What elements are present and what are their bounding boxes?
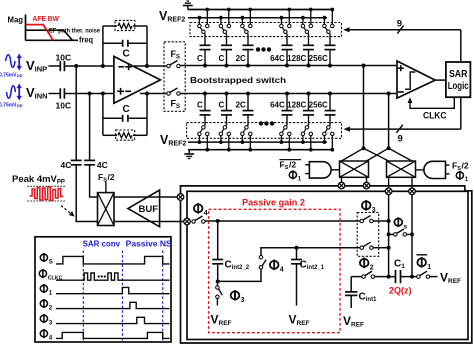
- wire to phi4 series switch: [218, 269, 261, 281]
- capacitor C1: [394, 259, 405, 284]
- capacitor C (bottom DAC): [219, 92, 232, 126]
- svg-text:0.75mV: 0.75mV: [0, 73, 17, 79]
- top DAC VREF2 rail: [188, 17, 327, 19]
- ground (top of top DAC): [183, 1, 193, 10]
- outer loop box: [181, 186, 472, 343]
- capacitor C (top DAC): [197, 34, 210, 68]
- svg-text:4C: 4C: [61, 160, 72, 170]
- svg-text:SAR conv: SAR conv: [83, 238, 121, 248]
- svg-text:0.75mV: 0.75mV: [0, 103, 17, 109]
- svg-text:/2: /2: [108, 172, 115, 182]
- feedback capacitor C (bottom): [103, 94, 147, 136]
- svg-text:3: 3: [49, 319, 53, 326]
- svg-text:128C: 128C: [287, 101, 306, 110]
- crossing wires into chopper boxes: [342, 148, 413, 161]
- svg-text:10C: 10C: [56, 101, 72, 111]
- dashed box phi3: [357, 213, 379, 257]
- svg-text:10C: 10C: [56, 53, 72, 63]
- wire 4C left to chopper: [76, 165, 97, 222]
- signal phi_3: [40, 314, 169, 326]
- svg-text:C: C: [123, 49, 130, 60]
- label Fs/2 (chopper drive): [98, 172, 115, 184]
- bottom DAC switch column 2C (bit 2): [241, 126, 253, 152]
- svg-text:SAR: SAR: [449, 69, 468, 80]
- signal phi_2: [40, 299, 169, 311]
- signal phi_1: [40, 284, 169, 296]
- svg-text:/2: /2: [462, 161, 469, 171]
- wire phi4 up to Cint2_1 rail: [261, 248, 362, 256]
- stub left box to modulators: [342, 177, 413, 188]
- wire vertical from left top modulator: [388, 195, 390, 277]
- switch phi4 (series, middle): [259, 255, 284, 273]
- wire bottom DAC plate bus (amp out to comparator -): [181, 93, 397, 95]
- svg-text:PP: PP: [17, 74, 23, 79]
- signal phi_CLKC: [39, 269, 169, 281]
- bottom DAC ground rail: [188, 149, 334, 151]
- svg-text:AFE BW: AFE BW: [33, 14, 60, 23]
- capacitor 64C (bottom DAC): [270, 92, 292, 126]
- capacitor C (bottom DAC): [197, 92, 210, 126]
- switch phi4 (input of passive gain): [192, 203, 208, 223]
- svg-text:freq: freq: [79, 36, 93, 45]
- switch phi_s: [387, 217, 414, 236]
- dashed arrow to chopper: [61, 206, 75, 217]
- feedback resistor (top, dashed box): [103, 20, 147, 30]
- svg-text:2C: 2C: [236, 101, 246, 110]
- dots (bottom DAC ellipsis): [259, 121, 274, 125]
- capacitor 4C (left): [61, 160, 82, 170]
- label phi1 (right AND): [459, 171, 461, 180]
- label Fs/2 (right): [452, 161, 469, 173]
- wire VINP to 10C: [48, 65, 60, 67]
- wire chopper to inner modulator (bottom): [114, 221, 184, 223]
- svg-text:1: 1: [49, 289, 53, 296]
- input sine icon VINN: [7, 84, 22, 101]
- svg-text:9: 9: [397, 19, 402, 30]
- svg-text:Bootstrapped switch: Bootstrapped switch: [190, 75, 286, 85]
- svg-text:S: S: [49, 258, 53, 265]
- top DAC switch column 64C (bit 3): [280, 8, 292, 34]
- svg-text:3: 3: [241, 297, 245, 304]
- svg-text:C: C: [219, 101, 225, 110]
- wire 10C to amp (-) input: [64, 64, 114, 68]
- switch phi1 bar: [417, 255, 438, 279]
- top DAC switch column 128C (bit 4): [301, 8, 313, 34]
- wire drop from + bus: [362, 66, 366, 151]
- svg-text:256C: 256C: [309, 101, 328, 110]
- dots (top DAC ellipsis): [256, 47, 271, 51]
- top DAC switch column 256C (bit 5): [323, 8, 335, 34]
- top DAC ground rail: [188, 9, 334, 11]
- label phi1 (left AND): [292, 170, 294, 179]
- chopper modulator symbols on left edges: [177, 194, 190, 225]
- top DAC switches dashed box: [190, 23, 342, 37]
- bottom integrator wire: [351, 275, 416, 279]
- svg-text:/2: /2: [289, 160, 296, 170]
- svg-text:64C: 64C: [270, 54, 285, 63]
- svg-text:PP: PP: [17, 104, 23, 109]
- label phi3: [365, 200, 367, 211]
- switch phi2: [360, 258, 375, 279]
- switch phi3 (below Cint2_2): [216, 281, 245, 305]
- chopper modulator symbols on top edges: [338, 182, 415, 194]
- wire chopper to outer modulator (top): [114, 196, 177, 198]
- wire vertical from right top modulator: [411, 195, 413, 277]
- buffer BUF: [128, 190, 160, 227]
- AND gate (left chopper clock): [305, 162, 339, 178]
- capacitor 10C (bottom): [56, 88, 72, 110]
- wire y221 to node: [373, 219, 390, 223]
- capacitor 256C (bottom DAC): [309, 92, 336, 126]
- timing diagram box: [35, 237, 171, 342]
- chopper box (input chopper): [98, 193, 115, 226]
- svg-text:2: 2: [370, 264, 374, 271]
- svg-text:2: 2: [49, 304, 53, 311]
- AND gate (right chopper clock): [416, 161, 450, 178]
- capacitor Cint1: [345, 277, 377, 308]
- bottom DAC switch column 64C (bit 3): [280, 126, 292, 152]
- red dashed box Passive gain 2: [209, 209, 340, 332]
- comparator U2: [397, 61, 435, 98]
- wire 4C right to chopper: [90, 165, 98, 197]
- svg-text:C: C: [197, 101, 203, 110]
- top DAC switch column C (bit 1): [219, 8, 231, 34]
- dashed box around Fs switches: [164, 42, 185, 112]
- svg-text:Mag: Mag: [8, 16, 24, 25]
- svg-text:2Q(z): 2Q(z): [389, 286, 412, 296]
- wire top DAC plate bus (amp out to comparator +): [181, 65, 397, 67]
- op-amp A1 (AFE amplifier): [114, 56, 160, 103]
- svg-text:CLKC: CLKC: [423, 110, 447, 121]
- SAR Logic block: [446, 62, 471, 97]
- svg-text:4: 4: [280, 266, 284, 273]
- svg-text:Passive NS: Passive NS: [126, 238, 172, 248]
- svg-text:256C: 256C: [309, 54, 328, 63]
- capacitor 256C (top DAC): [309, 34, 336, 68]
- feedback resistor (bottom, dashed box): [103, 130, 147, 140]
- svg-text:Logic: Logic: [448, 81, 469, 92]
- chopper box (left): [340, 161, 369, 177]
- svg-text:EF-path ther. noise: EF-path ther. noise: [49, 28, 100, 35]
- svg-text:4: 4: [49, 334, 53, 341]
- timing phase boundaries (blue dashed): [83, 251, 162, 342]
- chopper box (right): [387, 161, 416, 177]
- switch phi3 top (dashed box): [360, 216, 373, 223]
- svg-text:Passive gain 2: Passive gain 2: [242, 197, 305, 207]
- svg-text:C: C: [219, 54, 225, 63]
- wire comparator output: [435, 79, 446, 81]
- capacitor Cint2_1: [291, 246, 325, 306]
- capacitor Cint2_2: [212, 221, 250, 283]
- CLKC feedback to comparator: [408, 97, 455, 121]
- capacitor 10C (top): [56, 53, 72, 72]
- wire drop from - bus: [387, 94, 391, 151]
- feedback capacitor C (top): [103, 26, 147, 66]
- bottom DAC switch column 128C (bit 4): [301, 126, 313, 152]
- wire passive gain top rail: [205, 219, 362, 223]
- top DAC switch column 2C (bit 2): [241, 8, 253, 34]
- bottom DAC VREF2 rail: [188, 141, 327, 143]
- signal phi_S: [40, 253, 169, 265]
- inner loop box: [187, 191, 468, 339]
- wire amp top output: [134, 64, 167, 68]
- AFE BW red response curve: [26, 14, 60, 40]
- capacitor 2C (bottom DAC): [236, 92, 254, 126]
- wire 10C to amp (+) input: [64, 92, 114, 96]
- sampling switch Fs (top): [167, 49, 181, 68]
- red chopped waveform: [27, 186, 65, 201]
- wire amp bottom output: [140, 92, 167, 96]
- capacitor 2C (top DAC): [236, 34, 254, 68]
- bottom DAC switch column C (bit 1): [219, 126, 231, 152]
- ground (bottom of bottom DAC): [184, 150, 194, 159]
- svg-text:BUF: BUF: [139, 204, 159, 215]
- capacitor 128C (bottom DAC): [287, 92, 314, 126]
- bus 9 to bottom DAC switches: [344, 97, 461, 144]
- inset plot: Mag vs freq: [8, 15, 79, 41]
- wire VINN to 10C: [48, 93, 60, 95]
- bottom DAC switch column 256C (bit 5): [323, 126, 335, 152]
- svg-text:3: 3: [372, 207, 376, 214]
- bus 9 to top DAC switches: [343, 19, 461, 63]
- wire y247.7 to node: [373, 246, 390, 250]
- wire Fs/2 stub: [105, 182, 107, 193]
- capacitor C (top DAC): [219, 34, 232, 68]
- wire INP tap down: [75, 66, 77, 160]
- label Fs/2 bar (left): [279, 160, 301, 172]
- bottom DAC switches dashed box: [187, 123, 342, 139]
- svg-text:C: C: [197, 54, 203, 63]
- top DAC switch column C (bit 0): [198, 8, 210, 34]
- switch phi3 bottom (dashed box): [360, 242, 373, 249]
- node comparator inputs: [362, 64, 391, 96]
- svg-text:64C: 64C: [270, 101, 285, 110]
- capacitor 64C (top DAC): [270, 34, 292, 68]
- svg-text:s: s: [404, 223, 408, 230]
- input sine icon VINP: [6, 54, 22, 71]
- svg-text:128C: 128C: [287, 54, 306, 63]
- signal phi_4: [40, 329, 169, 341]
- svg-text:4C: 4C: [97, 160, 108, 170]
- svg-text:C: C: [123, 104, 130, 115]
- bottom DAC switch column C (bit 0): [198, 126, 210, 152]
- capacitor 128C (top DAC): [287, 34, 314, 68]
- svg-text:9: 9: [398, 134, 403, 145]
- wire INN tap down: [89, 94, 91, 161]
- svg-text:1: 1: [427, 264, 431, 271]
- svg-text:4: 4: [204, 210, 208, 217]
- svg-text:2C: 2C: [236, 54, 246, 63]
- capacitor 4C (right): [84, 160, 108, 170]
- sampling switch Fs (bottom): [167, 88, 181, 110]
